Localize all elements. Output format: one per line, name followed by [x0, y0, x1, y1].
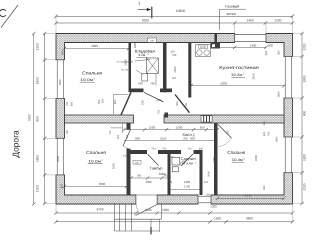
- window W3 right wall upper: [284, 57, 294, 99]
- svg-text:400: 400: [71, 101, 74, 106]
- svg-text:800: 800: [278, 50, 281, 55]
- svg-text:1500: 1500: [176, 126, 183, 130]
- svg-text:400: 400: [263, 131, 266, 136]
- section cut line bottom bar: [150, 227, 152, 235]
- svg-text:300: 300: [101, 98, 104, 103]
- svg-text:8200: 8200: [142, 18, 149, 22]
- svg-text:200: 200: [167, 180, 172, 184]
- svg-text:100: 100: [150, 40, 155, 43]
- left outer dimension line 7800: [33, 34, 35, 205]
- bedroom3 door leaf swing: [218, 125, 232, 139]
- svg-text:700: 700: [66, 101, 69, 106]
- north arrow fragment: [0, 9, 6, 16]
- white chase boxes in wall A: [201, 116, 203, 122]
- svg-text:3800: 3800: [246, 217, 253, 221]
- svg-text:700: 700: [66, 130, 69, 135]
- storage room west wall: [129, 43, 132, 93]
- storage small boiler box: [142, 74, 148, 82]
- svg-text:800: 800: [268, 44, 273, 48]
- svg-text:750: 750: [126, 134, 129, 139]
- svg-text:10.0м: 10.0м: [80, 78, 93, 82]
- svg-text:10.4м: 10.4м: [232, 158, 244, 162]
- svg-text:200: 200: [206, 193, 211, 196]
- angled door kitchen to hall: [175, 95, 190, 113]
- gas boiler on wall: [211, 43, 221, 49]
- sanuzel east wall: [200, 150, 203, 195]
- svg-text:2250: 2250: [212, 156, 216, 163]
- svg-text:750: 750: [158, 109, 161, 114]
- svg-text:1000: 1000: [145, 180, 152, 184]
- svg-text:2400: 2400: [173, 66, 177, 73]
- svg-text:1500: 1500: [149, 126, 156, 130]
- angled door bedroom1 to hall: [121, 92, 131, 115]
- svg-text:1800: 1800: [36, 155, 40, 162]
- svg-text:800: 800: [114, 99, 117, 104]
- svg-text:1000: 1000: [200, 46, 206, 49]
- svg-text:10800: 10800: [176, 9, 186, 13]
- svg-text:Тамбур: Тамбур: [150, 167, 163, 171]
- tambour door leaf swing: [148, 154, 159, 166]
- svg-text:Кухня-гостиная: Кухня-гостиная: [219, 65, 259, 70]
- entrance door leaf swing outward: [136, 205, 158, 216]
- window W1 left wall upper: [56, 60, 66, 99]
- kitchen dims: [214, 46, 266, 48]
- svg-text:1800: 1800: [58, 79, 62, 86]
- svg-text:800: 800: [176, 101, 179, 106]
- bedroom2 dims: [65, 185, 127, 187]
- gas boiler flue leader: [220, 8, 247, 10]
- svg-text:650: 650: [200, 126, 205, 130]
- funnel dims: [113, 94, 128, 96]
- window W4 right wall lower: [284, 137, 294, 173]
- svg-text:800: 800: [303, 111, 307, 117]
- svg-text:700: 700: [268, 131, 271, 136]
- window W5 top wall kitchen: [235, 33, 266, 43]
- svg-text:800: 800: [117, 134, 120, 139]
- svg-text:3700: 3700: [96, 208, 103, 212]
- svg-text:700: 700: [150, 81, 155, 85]
- svg-text:800: 800: [263, 185, 266, 190]
- svg-text:3000: 3000: [99, 182, 106, 186]
- bedroom3 west wall: [214, 123, 218, 195]
- svg-text:1050: 1050: [160, 137, 167, 141]
- svg-text:800: 800: [61, 50, 65, 55]
- exterior walls hatched band: [56, 34, 293, 205]
- svg-text:Спальня: Спальня: [86, 150, 106, 155]
- svg-text:2000: 2000: [207, 171, 210, 177]
- svg-text:1000: 1000: [144, 208, 151, 212]
- wall A hall north - left segment: [65, 115, 134, 123]
- svg-text:1300: 1300: [210, 205, 217, 209]
- top dimension line 8200 1400 1200: [56, 22, 293, 24]
- svg-text:1800: 1800: [36, 77, 40, 84]
- hall dims row1: [124, 129, 218, 131]
- kitchen west wall: [188, 43, 191, 98]
- svg-text:250: 250: [226, 130, 229, 135]
- svg-text:750: 750: [172, 53, 177, 57]
- sanuzel washing machine: [172, 158, 180, 166]
- svg-text:19.2м: 19.2м: [231, 73, 243, 77]
- svg-text:150: 150: [170, 50, 175, 53]
- svg-text:Дорога: Дорога: [11, 130, 21, 158]
- svg-text:1800: 1800: [276, 136, 279, 142]
- bedroom2 east wall with door: [127, 123, 131, 130]
- storage south wall left segment: [131, 89, 144, 93]
- svg-text:3000: 3000: [91, 44, 98, 48]
- left dimension column: [44, 34, 46, 205]
- entrance porch steps: [114, 204, 116, 231]
- svg-text:1000: 1000: [162, 208, 169, 212]
- svg-text:1800: 1800: [56, 155, 60, 162]
- sanuzel door leaf swing: [181, 154, 193, 166]
- window W2 left wall lower: [56, 138, 66, 175]
- svg-text:750: 750: [136, 174, 141, 178]
- window W6 bottom wall small: [198, 195, 211, 205]
- svg-text:1200: 1200: [36, 43, 40, 50]
- svg-text:1800: 1800: [303, 75, 307, 82]
- bedroom1 interior dims: [65, 48, 129, 50]
- svg-text:Эл. котел: Эл. котел: [121, 69, 132, 72]
- top dimension line overall 10800: [56, 15, 293, 17]
- svg-text:3050: 3050: [245, 194, 252, 198]
- svg-text:3.2м: 3.2м: [138, 53, 146, 57]
- wall A right end cap: [165, 113, 169, 118]
- bedroom3 dims: [218, 197, 285, 199]
- svg-text:1200: 1200: [303, 183, 307, 190]
- kitchen sink unit: [196, 45, 211, 57]
- svg-text:10.0м: 10.0м: [88, 159, 101, 163]
- svg-text:600: 600: [138, 81, 143, 85]
- svg-text:700: 700: [151, 147, 156, 150]
- entrance door opening bottom wall: [136, 195, 157, 205]
- svg-text:300: 300: [135, 161, 140, 164]
- svg-text:1200: 1200: [303, 43, 307, 50]
- svg-text:1400: 1400: [247, 19, 254, 23]
- tambour-sanuzel divider wall: [168, 150, 171, 195]
- svg-text:200: 200: [156, 98, 161, 102]
- storage room east wall: [163, 43, 167, 93]
- svg-text:2400: 2400: [123, 59, 127, 66]
- svg-text:7800: 7800: [28, 114, 32, 121]
- svg-text:700: 700: [183, 137, 188, 141]
- svg-text:650: 650: [165, 174, 170, 178]
- bedroom2 door leaf swing: [123, 130, 131, 147]
- svg-text:1700: 1700: [184, 185, 191, 189]
- svg-text:700: 700: [187, 147, 192, 150]
- svg-text:Спальня: Спальня: [227, 150, 245, 155]
- storage door leaf swing: [144, 92, 164, 102]
- svg-text:600: 600: [263, 120, 266, 125]
- sanuzel toilet: [172, 167, 178, 172]
- svg-text:200: 200: [204, 181, 209, 184]
- storage water heater tank: [147, 58, 159, 73]
- svg-text:200: 200: [172, 77, 177, 80]
- storage south wall right segment: [160, 89, 172, 93]
- svg-text:800: 800: [265, 50, 268, 55]
- svg-text:котел: котел: [227, 12, 236, 16]
- svg-text:1800: 1800: [278, 91, 281, 97]
- svg-text:1200: 1200: [36, 185, 40, 192]
- bedroom2 door dims: [122, 123, 124, 133]
- vent stub in storage NW: [134, 43, 136, 49]
- svg-text:100: 100: [185, 102, 188, 107]
- right dimension column: [301, 34, 303, 205]
- svg-text:3100: 3100: [252, 73, 256, 80]
- svg-text:200: 200: [182, 160, 187, 163]
- svg-text:1200: 1200: [274, 19, 281, 23]
- svg-text:1400: 1400: [250, 44, 257, 48]
- svg-text:Спальня: Спальня: [82, 70, 102, 75]
- svg-text:Газовый: Газовый: [225, 5, 239, 9]
- svg-text:5200: 5200: [220, 82, 227, 86]
- svg-text:2250: 2250: [112, 162, 116, 169]
- svg-text:1800: 1800: [303, 154, 307, 161]
- wall B tambour north segments: [127, 150, 148, 154]
- svg-text:800: 800: [36, 116, 40, 122]
- svg-text:800: 800: [135, 137, 140, 141]
- svg-text:800: 800: [199, 147, 204, 150]
- top wall type label box: [148, 38, 157, 42]
- svg-text:700: 700: [162, 147, 167, 150]
- svg-text:750: 750: [109, 130, 112, 135]
- svg-text:500: 500: [141, 100, 145, 105]
- svg-text:1300: 1300: [214, 217, 221, 221]
- svg-text:750: 750: [97, 99, 101, 104]
- hall dims row2: [124, 140, 214, 142]
- svg-text:800: 800: [190, 137, 195, 141]
- wall A hall north - right segment: [164, 115, 284, 123]
- svg-text:3300: 3300: [254, 154, 258, 161]
